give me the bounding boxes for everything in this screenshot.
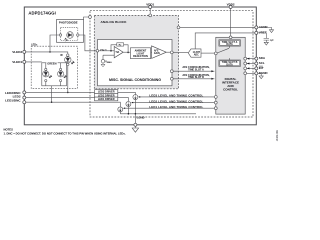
LEDs dashed box	[31, 46, 77, 88]
ADC 14-bit	[188, 49, 201, 57]
wire AFE gain to ADC	[166, 51, 170, 53]
svg-text:IR: IR	[60, 54, 63, 57]
svg-text:REJECTION: REJECTION	[133, 55, 148, 58]
pin LED1/DNC	[23, 101, 26, 104]
green LED G1	[43, 63, 52, 86]
wire green cathodes to LED1 line	[51, 86, 53, 102]
svg-text:ADC: ADC	[194, 54, 199, 57]
wire ALR to AFE gain	[150, 51, 153, 53]
CH1 input node	[96, 50, 99, 53]
wire TIA out to ALR	[123, 51, 130, 53]
junction dot PD/VLED2 rail	[49, 51, 51, 53]
svg-text:LED3 DRIVER: LED3 DRIVER	[98, 91, 115, 94]
svg-text:LED3 LEVEL AND TIMING CONTROL: LED3 LEVEL AND TIMING CONTROL	[149, 94, 203, 98]
svg-text:LEDs: LEDs	[31, 43, 38, 46]
svg-text:INT: INT	[259, 66, 264, 70]
svg-text:VLED1: VLED1	[12, 60, 22, 64]
switch pivot node	[214, 52, 217, 55]
svg-text:TIME SLOT B: TIME SLOT B	[188, 76, 204, 79]
wire VLED1 to GREEN box	[26, 61, 42, 63]
svg-text:ANALOG BLOCK: ANALOG BLOCK	[101, 20, 128, 24]
svg-text:AGND: AGND	[259, 25, 269, 29]
photodiode terminals	[59, 34, 61, 36]
LED IR symbol	[65, 54, 75, 66]
svg-text:BIAS: BIAS	[107, 61, 112, 64]
green LED G2	[58, 63, 67, 86]
svg-text:LGND: LGND	[137, 116, 145, 120]
chip edge pin circle	[89, 16, 92, 19]
svg-text:SDA: SDA	[259, 56, 266, 60]
TIA feedback resistor RF	[111, 45, 128, 53]
pin LED3/DNC	[23, 91, 26, 94]
wire CH1 to TIA	[99, 50, 115, 52]
svg-text:GAIN: GAIN	[154, 52, 160, 55]
DGND wire and pin	[244, 72, 247, 75]
DGND external ground	[258, 73, 264, 78]
digital block box	[216, 37, 245, 114]
pin VLED1	[23, 60, 26, 63]
svg-text:LED2 DRIVER: LED2 DRIVER	[98, 94, 115, 97]
svg-text:TIME SLOT A: TIME SLOT A	[188, 69, 204, 72]
current source Q1	[118, 107, 123, 114]
svg-text:LED1/DNC: LED1/DNC	[5, 98, 21, 102]
ground symbol LGND	[132, 126, 138, 132]
ground symbol VBIAS	[101, 63, 105, 67]
GREEN LEDs box	[42, 63, 67, 86]
wire LED1 line	[26, 102, 121, 107]
svg-text:GREEN: GREEN	[47, 62, 56, 66]
op-amp TIA	[114, 47, 123, 58]
wire PD cathode to CH1	[79, 35, 96, 51]
svg-text:LED1 LEVEL AND TIMING CONTROL: LED1 LEVEL AND TIMING CONTROL	[149, 105, 203, 109]
svg-text:TIA: TIA	[115, 51, 119, 54]
svg-text:LED2 LEVEL AND TIMING CONTROL: LED2 LEVEL AND TIMING CONTROL	[149, 99, 203, 103]
photodiode box	[57, 20, 84, 43]
svg-text:SCL: SCL	[259, 61, 265, 65]
LED driver boxes	[95, 90, 118, 101]
svg-text:NOTES: NOTES	[4, 127, 14, 131]
AFE gain amp	[152, 46, 167, 59]
svg-text:LED1 DRIVER: LED1 DRIVER	[98, 98, 115, 101]
svg-text:VREF: VREF	[259, 31, 267, 35]
analog block dashed box	[94, 16, 178, 89]
LGND rail	[120, 113, 196, 115]
VREF wire and pin	[195, 33, 255, 49]
svg-text:VLED2: VLED2	[12, 50, 22, 54]
pin LED2	[23, 96, 26, 99]
chip dashed boundary	[90, 11, 253, 117]
INT wire and pin	[244, 67, 247, 70]
analog inner white box	[98, 40, 173, 86]
SDA wire and pin	[244, 57, 247, 60]
AGND external ground	[258, 27, 274, 32]
svg-text:ADPD174GGI: ADPD174GGI	[28, 10, 56, 15]
wire ADC out to switch	[201, 52, 214, 54]
svg-text:1μF: 1μF	[270, 39, 275, 42]
svg-text:14342-001: 14342-001	[276, 129, 279, 141]
wire LED3 line	[26, 92, 136, 94]
switch arm and contacts	[217, 46, 230, 60]
photodiode inner dashed box	[61, 27, 78, 40]
svg-text:CONTROL: CONTROL	[223, 88, 238, 92]
module outer box ADPD174GGI	[24, 7, 256, 125]
svg-text:F: F	[120, 45, 121, 47]
svg-text:MISC. SIGNAL CONDITIONING: MISC. SIGNAL CONDITIONING	[109, 78, 161, 82]
svg-text:DATA: DATA	[226, 63, 233, 66]
wire PD anode to VLED rail	[50, 35, 59, 52]
AFE config time slot B wire	[170, 77, 173, 80]
svg-text:DATA: DATA	[226, 43, 233, 46]
SCL wire and pin	[244, 62, 247, 65]
svg-text:CH 1: CH 1	[100, 48, 107, 52]
LED1 level and timing control wire	[214, 107, 217, 110]
svg-text:1. DNC = DO NOT CONNECT. DO NO: 1. DNC = DO NOT CONNECT. DO NOT CONNECT …	[4, 132, 126, 136]
AFE config time slot A wire	[170, 70, 173, 73]
AGND wire and pin	[177, 26, 180, 29]
pin VLED2	[23, 50, 26, 53]
svg-text:AFE: AFE	[154, 49, 159, 52]
LGND pin	[134, 114, 136, 124]
VBIAS source	[103, 55, 114, 59]
current source Q2	[126, 102, 131, 114]
wire VLED2 to IR anode	[26, 52, 68, 54]
wire IR cathode down to LED3 line	[67, 66, 69, 93]
current source Q3	[133, 95, 138, 114]
LED3 level and timing control wire	[214, 96, 217, 99]
wire LED2 line	[26, 98, 129, 102]
ambient light rejection box	[130, 48, 150, 59]
photodiode D1 symbol	[64, 32, 73, 42]
svg-text:PHOTODIODE: PHOTODIODE	[59, 21, 78, 25]
VREF external capacitor 1uF	[258, 33, 269, 45]
time slot B data box	[219, 60, 241, 66]
time slot A data box	[219, 40, 241, 46]
LED2 level and timing control wire	[214, 101, 217, 104]
wire PD box to chip pin	[84, 17, 89, 20]
svg-text:DGND: DGND	[259, 71, 269, 75]
